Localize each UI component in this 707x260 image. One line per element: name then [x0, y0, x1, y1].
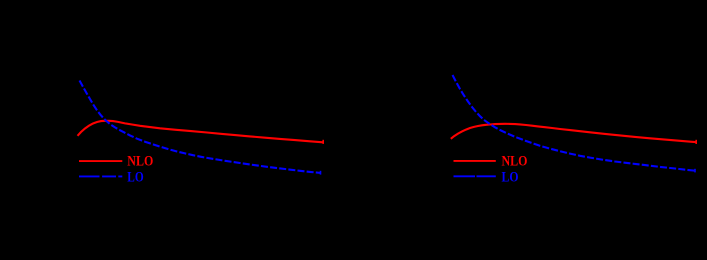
svg-text:LO: LO: [127, 169, 144, 186]
left legend LO sample line (blue dashed): [79, 175, 122, 177]
svg-text:NLO: NLO: [127, 153, 153, 170]
left plot NLO curve (red): [78, 121, 324, 144]
right legend LO sample line (blue dashed): [454, 175, 496, 177]
left plot LO curve (blue dashed): [80, 81, 322, 175]
svg-text:NLO: NLO: [502, 153, 528, 170]
right plot NLO curve (red): [451, 124, 696, 144]
right plot LO curve (blue dashed): [453, 75, 696, 172]
left legend NLO sample line (red): [79, 160, 122, 162]
right legend NLO sample line (red): [454, 160, 496, 162]
svg-text:LO: LO: [502, 169, 519, 186]
